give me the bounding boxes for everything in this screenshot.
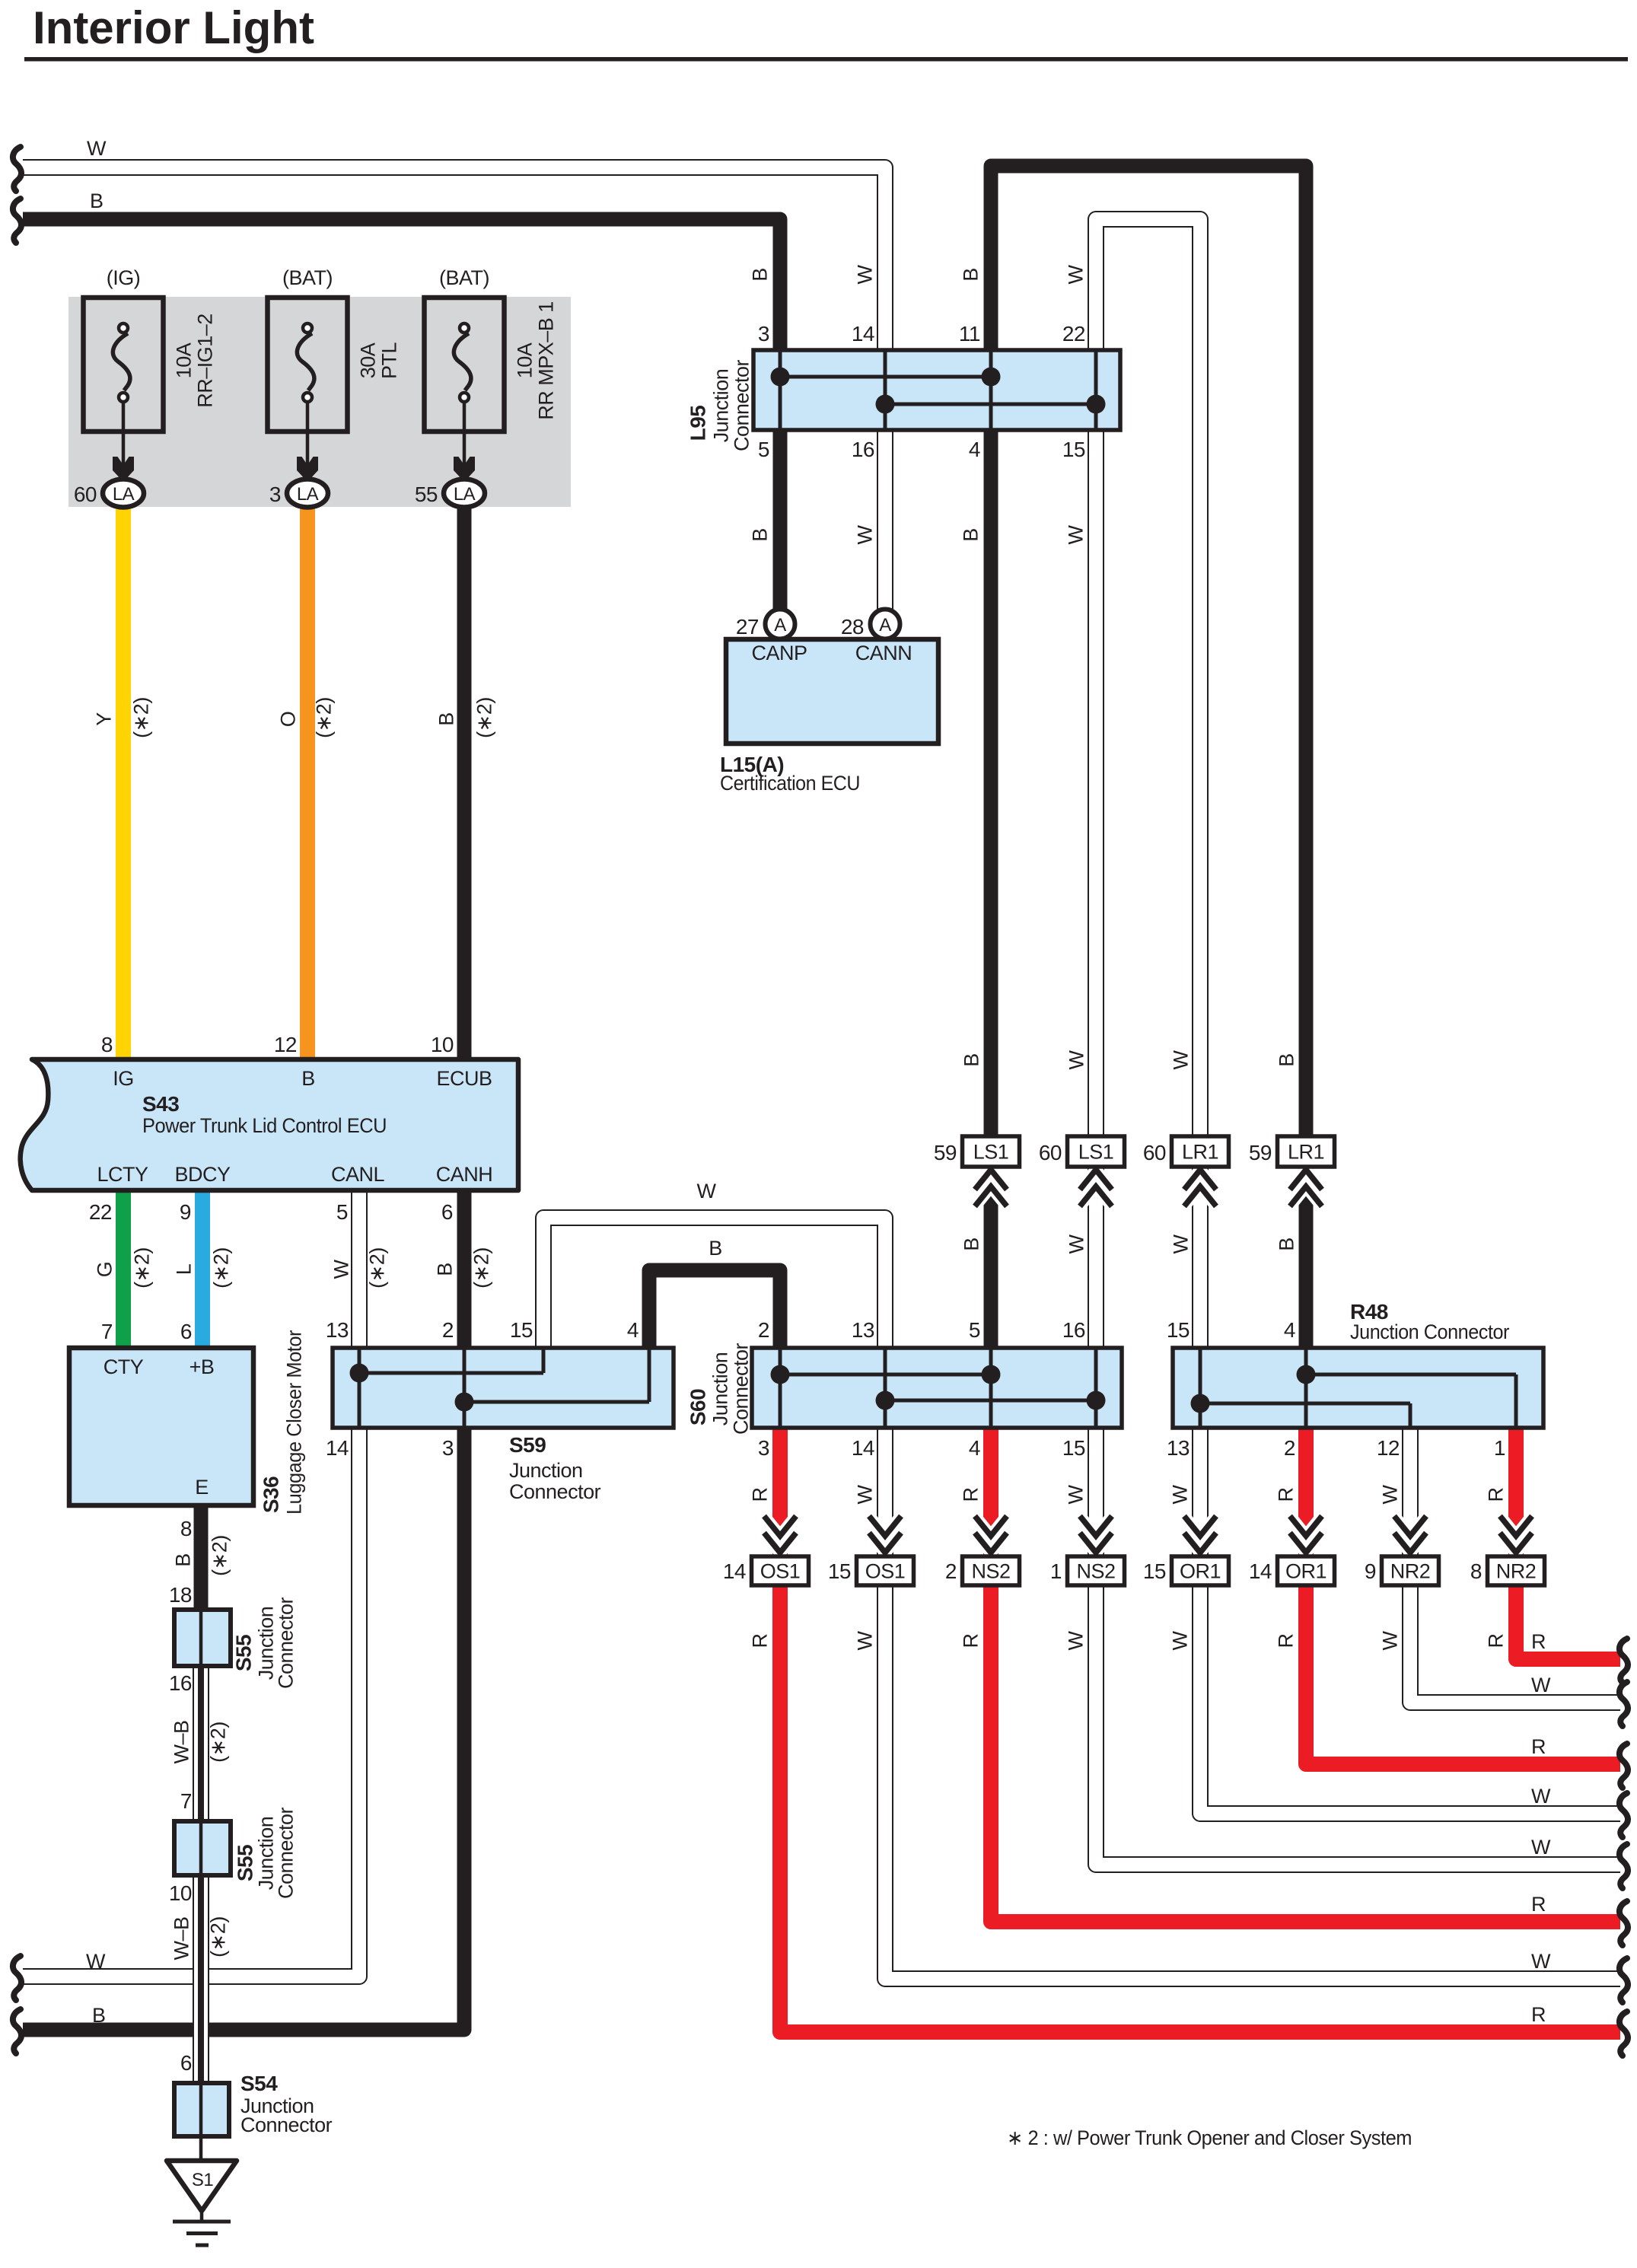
svg-text:S55: S55 (234, 1845, 257, 1881)
svg-text:(∗2): (∗2) (130, 697, 153, 738)
svg-text:Luggage Closer Motor: Luggage Closer Motor (283, 1330, 306, 1515)
svg-text:B: B (960, 1053, 983, 1067)
svg-text:6: 6 (441, 1200, 453, 1224)
svg-text:RR–IG1–2: RR–IG1–2 (194, 314, 217, 408)
svg-text:R: R (1485, 1634, 1508, 1648)
svg-text:LA: LA (454, 484, 476, 505)
svg-text:W: W (1379, 1484, 1402, 1504)
svg-text:14: 14 (326, 1436, 349, 1460)
svg-text:22: 22 (1062, 322, 1085, 346)
svg-text:2: 2 (1284, 1436, 1295, 1460)
svg-text:4: 4 (969, 1436, 980, 1460)
svg-text:R: R (960, 1488, 983, 1502)
svg-text:W–B: W–B (170, 1720, 193, 1763)
svg-text:B: B (749, 528, 772, 542)
svg-text:B: B (90, 190, 104, 212)
svg-text:B: B (960, 268, 983, 282)
svg-text:W: W (854, 264, 877, 284)
svg-text:B: B (960, 528, 983, 542)
svg-text:B: B (172, 1553, 195, 1567)
svg-text:IG: IG (113, 1067, 134, 1090)
svg-text:(∗2): (∗2) (313, 697, 336, 738)
svg-text:5: 5 (336, 1200, 348, 1224)
svg-text:L95: L95 (686, 406, 710, 441)
svg-text:R: R (1531, 1630, 1546, 1653)
svg-text:W: W (1169, 1630, 1192, 1650)
svg-text:1: 1 (1050, 1559, 1062, 1583)
svg-text:S60: S60 (686, 1389, 710, 1425)
svg-text:OR1: OR1 (1285, 1560, 1326, 1583)
svg-text:Junction Connector: Junction Connector (1350, 1320, 1509, 1343)
svg-text:3: 3 (758, 1436, 769, 1460)
svg-text:11: 11 (959, 322, 980, 346)
svg-text:9: 9 (1365, 1559, 1376, 1583)
svg-text:R: R (1531, 2003, 1546, 2026)
svg-text:BDCY: BDCY (174, 1163, 231, 1186)
svg-text:W: W (854, 1630, 877, 1650)
svg-text:OS1: OS1 (865, 1560, 906, 1583)
svg-text:8: 8 (1470, 1559, 1482, 1583)
svg-text:S1: S1 (192, 2170, 214, 2190)
svg-text:L: L (173, 1263, 196, 1275)
svg-text:∗ 2 : w/ Power Trunk Opener an: ∗ 2 : w/ Power Trunk Opener and Closer S… (1007, 2126, 1412, 2149)
svg-text:15: 15 (1062, 1436, 1085, 1460)
svg-text:B: B (434, 1263, 457, 1276)
svg-text:W: W (1379, 1630, 1402, 1650)
svg-text:W: W (854, 524, 877, 544)
svg-text:(∗2): (∗2) (210, 1247, 233, 1288)
svg-text:16: 16 (169, 1671, 192, 1695)
svg-text:60: 60 (1039, 1141, 1062, 1164)
svg-text:4: 4 (969, 438, 980, 461)
svg-text:Junction: Junction (509, 1459, 583, 1482)
svg-text:PTL: PTL (378, 342, 401, 380)
svg-text:LCTY: LCTY (97, 1163, 148, 1186)
svg-text:R: R (1531, 1735, 1546, 1758)
svg-text:2: 2 (945, 1559, 957, 1583)
svg-text:14: 14 (1249, 1559, 1272, 1583)
svg-text:W: W (87, 137, 107, 160)
svg-text:W: W (854, 1484, 877, 1504)
svg-text:15: 15 (510, 1318, 533, 1342)
svg-text:18: 18 (169, 1583, 192, 1607)
svg-text:60: 60 (1143, 1141, 1166, 1164)
svg-text:Connector: Connector (730, 1343, 753, 1435)
svg-text:27: 27 (736, 615, 759, 639)
svg-text:S43: S43 (142, 1092, 179, 1116)
svg-text:R: R (1485, 1488, 1508, 1502)
svg-text:15: 15 (828, 1559, 851, 1583)
svg-text:W: W (1065, 1234, 1088, 1253)
svg-text:B: B (1276, 1238, 1298, 1251)
svg-text:5: 5 (758, 438, 769, 461)
svg-text:LR1: LR1 (1182, 1141, 1218, 1164)
svg-text:Connector: Connector (731, 359, 753, 451)
svg-text:S54: S54 (240, 2072, 278, 2095)
svg-text:B: B (709, 1237, 722, 1260)
svg-text:W: W (1170, 1050, 1193, 1069)
svg-text:(∗2): (∗2) (470, 1247, 493, 1288)
svg-text:CANH: CANH (436, 1163, 493, 1186)
svg-text:59: 59 (1249, 1141, 1272, 1164)
svg-text:Power Trunk Lid Control ECU: Power Trunk Lid Control ECU (142, 1114, 387, 1137)
svg-text:Junction: Junction (709, 1352, 732, 1426)
svg-text:14: 14 (852, 1436, 874, 1460)
svg-text:1: 1 (1494, 1436, 1505, 1460)
svg-text:16: 16 (852, 438, 874, 461)
svg-text:W: W (697, 1180, 717, 1202)
svg-text:6: 6 (180, 1320, 192, 1343)
svg-text:B: B (1276, 1053, 1298, 1067)
svg-text:Connector: Connector (275, 1807, 298, 1899)
svg-text:(∗2): (∗2) (207, 1722, 230, 1763)
svg-text:W: W (86, 1950, 106, 1973)
svg-text:8: 8 (101, 1033, 113, 1056)
svg-text:4: 4 (627, 1318, 639, 1342)
svg-text:W: W (1065, 1484, 1088, 1504)
svg-text:(BAT): (BAT) (439, 266, 489, 289)
svg-text:3: 3 (758, 322, 769, 346)
svg-text:(BAT): (BAT) (282, 266, 333, 289)
svg-text:Interior Light: Interior Light (33, 2, 314, 53)
svg-text:B: B (435, 712, 458, 726)
svg-text:+B: +B (189, 1355, 215, 1378)
svg-text:7: 7 (180, 1789, 192, 1813)
svg-text:15: 15 (1143, 1559, 1166, 1583)
svg-text:9: 9 (180, 1200, 191, 1224)
svg-text:(∗2): (∗2) (207, 1916, 230, 1957)
svg-text:CANL: CANL (331, 1163, 385, 1186)
svg-text:13: 13 (852, 1318, 874, 1342)
svg-text:B: B (960, 1238, 983, 1251)
svg-text:B: B (301, 1067, 315, 1090)
svg-text:Connector: Connector (240, 2114, 333, 2136)
svg-text:B: B (749, 268, 772, 282)
svg-text:5: 5 (969, 1318, 980, 1342)
svg-text:Junction: Junction (710, 369, 733, 443)
svg-text:S55: S55 (232, 1635, 256, 1671)
svg-text:R: R (960, 1634, 983, 1648)
svg-text:NR2: NR2 (1390, 1560, 1431, 1583)
svg-text:3: 3 (442, 1436, 454, 1460)
svg-text:W: W (1531, 1785, 1551, 1808)
svg-text:15: 15 (1062, 438, 1085, 461)
svg-text:W: W (1531, 1836, 1551, 1859)
svg-text:LS1: LS1 (1078, 1141, 1114, 1164)
svg-text:2: 2 (442, 1318, 454, 1342)
svg-text:(∗2): (∗2) (473, 697, 496, 738)
svg-text:59: 59 (934, 1141, 957, 1164)
svg-text:6: 6 (180, 2051, 192, 2075)
svg-text:CANN: CANN (855, 642, 912, 664)
svg-text:R: R (749, 1488, 772, 1502)
svg-text:LS1: LS1 (973, 1141, 1009, 1164)
svg-text:R: R (1275, 1634, 1298, 1648)
svg-text:LA: LA (113, 484, 135, 505)
svg-text:W: W (1065, 1630, 1088, 1650)
svg-text:A: A (879, 615, 891, 635)
svg-text:60: 60 (74, 483, 97, 506)
svg-text:W–B: W–B (170, 1916, 193, 1960)
svg-text:NS2: NS2 (971, 1560, 1010, 1583)
svg-text:16: 16 (1062, 1318, 1085, 1342)
svg-text:W: W (1531, 1950, 1551, 1973)
svg-text:15: 15 (1167, 1318, 1190, 1342)
svg-text:W: W (1531, 1674, 1551, 1696)
svg-text:3: 3 (269, 483, 281, 506)
svg-text:13: 13 (1167, 1436, 1190, 1460)
svg-text:12: 12 (1377, 1436, 1400, 1460)
svg-text:10: 10 (169, 1881, 192, 1905)
svg-text:2: 2 (758, 1318, 769, 1342)
svg-text:10A: 10A (173, 342, 196, 378)
svg-text:B: B (92, 2004, 106, 2027)
svg-text:28: 28 (841, 615, 864, 639)
svg-text:Connector: Connector (509, 1480, 601, 1503)
svg-text:W: W (1065, 1050, 1088, 1069)
svg-text:OR1: OR1 (1180, 1560, 1221, 1583)
svg-text:30A: 30A (357, 342, 380, 378)
svg-text:LA: LA (297, 484, 319, 505)
svg-text:7: 7 (101, 1320, 113, 1343)
svg-text:W: W (1065, 524, 1088, 544)
svg-text:S36: S36 (260, 1476, 283, 1513)
svg-text:W: W (1065, 264, 1088, 284)
svg-text:S59: S59 (509, 1433, 546, 1457)
svg-text:NS2: NS2 (1076, 1560, 1115, 1583)
svg-text:W: W (330, 1259, 353, 1279)
svg-text:10: 10 (431, 1033, 454, 1056)
svg-text:8: 8 (180, 1517, 192, 1540)
svg-text:4: 4 (1284, 1318, 1295, 1342)
svg-text:22: 22 (89, 1200, 112, 1224)
svg-text:14: 14 (852, 322, 874, 346)
svg-text:NR2: NR2 (1496, 1560, 1537, 1583)
svg-text:(IG): (IG) (107, 266, 141, 289)
svg-text:R: R (749, 1634, 772, 1648)
svg-text:ECUB: ECUB (436, 1067, 492, 1090)
svg-text:10A: 10A (514, 342, 537, 378)
svg-text:RR MPX–B 1: RR MPX–B 1 (535, 301, 558, 420)
svg-text:14: 14 (723, 1559, 746, 1583)
svg-text:W: W (1170, 1234, 1193, 1253)
svg-text:12: 12 (274, 1033, 297, 1056)
svg-text:Y: Y (93, 712, 116, 726)
svg-text:(∗2): (∗2) (366, 1247, 389, 1288)
svg-text:Connector: Connector (275, 1597, 298, 1689)
svg-text:OS1: OS1 (760, 1560, 801, 1583)
svg-text:E: E (195, 1476, 209, 1499)
svg-text:R: R (1275, 1488, 1298, 1502)
svg-text:W: W (1169, 1484, 1192, 1504)
svg-text:R: R (1531, 1893, 1546, 1916)
svg-text:A: A (774, 615, 786, 635)
svg-text:13: 13 (326, 1318, 349, 1342)
svg-text:(∗2): (∗2) (131, 1247, 154, 1288)
svg-text:Certification ECU: Certification ECU (720, 772, 860, 795)
svg-text:CTY: CTY (104, 1355, 144, 1378)
svg-text:LR1: LR1 (1288, 1141, 1324, 1164)
svg-text:55: 55 (415, 483, 438, 506)
svg-text:O: O (277, 712, 300, 728)
svg-text:(∗2): (∗2) (209, 1535, 231, 1576)
svg-text:CANP: CANP (751, 642, 807, 664)
svg-text:G: G (94, 1262, 116, 1278)
